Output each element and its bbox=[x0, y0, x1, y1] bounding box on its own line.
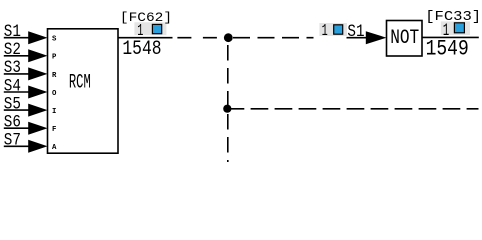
svg-text:R: R bbox=[52, 72, 57, 80]
svg-text:S5: S5 bbox=[4, 94, 21, 114]
svg-text:F: F bbox=[52, 126, 56, 134]
svg-text:1: 1 bbox=[322, 22, 328, 41]
svg-text:RCM: RCM bbox=[69, 71, 91, 94]
svg-text:S: S bbox=[52, 36, 57, 44]
svg-text:1: 1 bbox=[443, 21, 450, 40]
svg-text:[FC62]: [FC62] bbox=[120, 12, 172, 26]
svg-text:A: A bbox=[52, 144, 57, 152]
svg-text:S1: S1 bbox=[347, 22, 364, 42]
svg-text:NOT: NOT bbox=[390, 26, 419, 49]
svg-text:S2: S2 bbox=[4, 40, 21, 60]
svg-text:S6: S6 bbox=[4, 112, 21, 132]
svg-text:[FC33]: [FC33] bbox=[425, 9, 481, 24]
svg-text:S3: S3 bbox=[4, 58, 21, 78]
svg-text:S4: S4 bbox=[4, 76, 21, 96]
svg-text:I: I bbox=[52, 108, 56, 116]
svg-text:P: P bbox=[52, 54, 57, 62]
svg-text:O: O bbox=[52, 90, 57, 98]
svg-text:S7: S7 bbox=[4, 130, 21, 150]
svg-text:S1: S1 bbox=[4, 22, 21, 42]
svg-text:1: 1 bbox=[137, 22, 143, 41]
svg-text:1548: 1548 bbox=[122, 38, 161, 60]
